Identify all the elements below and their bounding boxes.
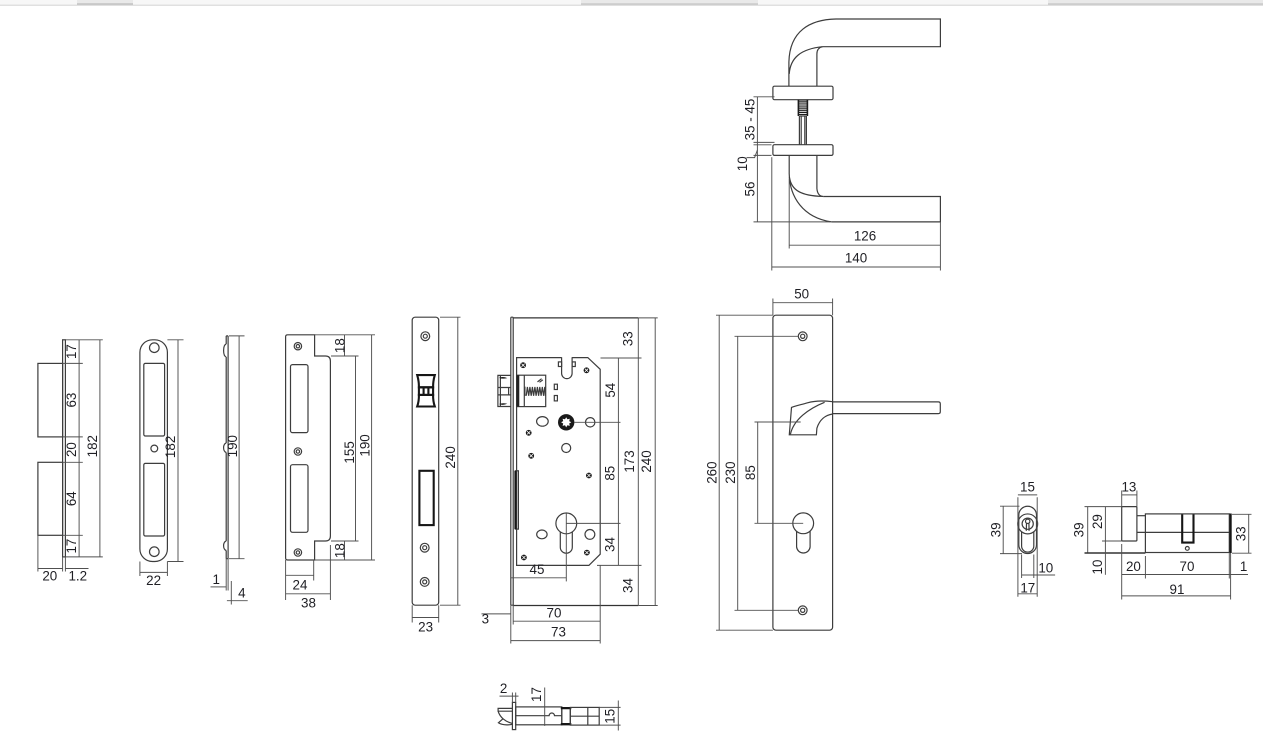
spindle midline xyxy=(570,715,599,717)
svg-text:54: 54 xyxy=(603,382,618,397)
85 dimension line xyxy=(757,422,759,523)
stepped strike plate outline xyxy=(286,335,331,560)
lock case outline with chamfered right corners (top open at slot) xyxy=(517,358,601,566)
lever boss outline xyxy=(789,401,832,435)
dim 35-45 / 56 vertical dimension line xyxy=(756,97,758,222)
svg-text:17: 17 xyxy=(64,344,79,359)
deadbolt edge-on xyxy=(515,471,518,529)
flat plate edge-on xyxy=(63,340,66,557)
bottom extension lines xyxy=(140,562,168,577)
small square hole upper xyxy=(554,384,557,389)
chain dimension line 54/85/34 xyxy=(617,358,619,565)
dim line 17 xyxy=(1018,593,1038,595)
45 extension and dim xyxy=(565,513,567,581)
bent tab bump middle xyxy=(224,443,227,453)
dim line 2 xyxy=(500,695,519,697)
deadbolt front xyxy=(419,471,433,525)
dim line 20/70/1 xyxy=(1122,574,1248,576)
oval hole bottom left xyxy=(537,530,547,539)
dim line 20 and 1.2 xyxy=(38,568,89,570)
bottom lever neck right edge with corner xyxy=(817,155,823,196)
10 dimension line extension xyxy=(1104,541,1106,575)
29 dimension line xyxy=(1104,507,1106,541)
bent tab bump top xyxy=(224,344,227,357)
svg-text:20: 20 xyxy=(42,569,57,584)
bottom lever bar xyxy=(823,197,940,222)
20/70/1 extension lines xyxy=(1122,544,1146,579)
top strip divider line xyxy=(0,5,1263,6)
bottom extension lines xyxy=(315,541,375,560)
left extension lines xyxy=(716,315,803,630)
circle bottom right xyxy=(585,530,595,540)
keyhole circle xyxy=(793,513,814,534)
cylinder body profile xyxy=(1022,532,1034,552)
latch spring coil xyxy=(525,387,546,396)
18 top dimension line xyxy=(344,335,346,356)
cylinder body xyxy=(1145,514,1229,553)
svg-text:1: 1 xyxy=(212,572,219,587)
dim line 91 xyxy=(1122,595,1231,597)
top screw hole outer xyxy=(798,332,807,341)
240 dimension line xyxy=(654,318,656,606)
2 dim extension lines xyxy=(512,693,515,703)
svg-text:18: 18 xyxy=(333,338,348,353)
bottom screw hole xyxy=(150,547,160,557)
tab 3 xyxy=(1048,0,1263,3)
17 dimension line xyxy=(544,688,546,726)
bottom extension lines xyxy=(226,559,231,605)
190 extension stubs xyxy=(229,336,245,559)
svg-text:173: 173 xyxy=(622,450,637,472)
lower bent lip box xyxy=(38,462,63,535)
bottom screw hole inner xyxy=(801,608,805,612)
tab 1 xyxy=(77,0,133,3)
middle hole xyxy=(151,445,158,452)
thumbturn knob profile (stadium) xyxy=(1019,506,1037,553)
cam slot xyxy=(1182,515,1193,543)
bottom rosette xyxy=(773,145,833,156)
top lever inner fillet curve xyxy=(789,47,822,74)
svg-text:85: 85 xyxy=(743,465,758,480)
lower screw hole outer xyxy=(420,543,429,552)
bottom lever outer curve xyxy=(789,174,831,222)
svg-text:38: 38 xyxy=(301,596,316,611)
39 dimension line xyxy=(1002,506,1004,553)
top screw hole inner xyxy=(801,334,805,338)
svg-text:190: 190 xyxy=(225,435,240,457)
neck xyxy=(1137,515,1146,517)
bottom extension lines xyxy=(412,605,439,622)
screw hole middle inner xyxy=(296,450,299,453)
svg-text:39: 39 xyxy=(1071,522,1086,537)
svg-text:91: 91 xyxy=(1170,582,1185,597)
dim line 1 xyxy=(211,586,227,588)
chain dimension line xyxy=(78,340,80,557)
small square hole lower xyxy=(554,396,557,401)
182 dimension line xyxy=(177,340,179,562)
svg-text:18: 18 xyxy=(333,543,348,558)
right end cap xyxy=(1229,514,1231,554)
svg-text:70: 70 xyxy=(1180,559,1195,574)
dim line 15 xyxy=(1018,494,1037,496)
chain dimension line 33/173/34 xyxy=(637,318,639,606)
keyway xyxy=(1026,519,1030,523)
dim line 73 xyxy=(511,640,600,642)
extension line from neck left down to 126 dim xyxy=(788,179,790,249)
lever grip end xyxy=(498,708,512,725)
182 extension stubs xyxy=(167,340,183,562)
svg-text:230: 230 xyxy=(723,461,738,483)
euro cylinder hole slot xyxy=(560,532,572,553)
latch tail detail marks xyxy=(538,379,543,383)
svg-text:13: 13 xyxy=(1121,479,1136,494)
svg-text:1: 1 xyxy=(1240,559,1247,574)
bent tab bump bottom xyxy=(224,541,227,551)
faceplate body xyxy=(412,317,439,605)
dim line 23 xyxy=(412,617,439,619)
230 dimension line xyxy=(737,336,739,610)
keyhole slot xyxy=(797,531,811,553)
svg-text:155: 155 xyxy=(342,441,357,463)
screw hole middle outer xyxy=(294,448,301,455)
10 extension lines xyxy=(1022,555,1034,579)
upper bent lip box xyxy=(38,363,63,437)
thin plate edge-on xyxy=(226,336,228,559)
cylinder face circle xyxy=(1018,514,1038,534)
dim line 126 xyxy=(789,244,940,246)
deadbolt cutout xyxy=(291,465,309,533)
13 extension lines xyxy=(1122,491,1137,507)
spindle threaded section xyxy=(798,100,807,116)
dim line 10 xyxy=(1022,574,1055,576)
small hole xyxy=(1185,547,1189,551)
svg-text:182: 182 xyxy=(163,436,178,458)
svg-text:10: 10 xyxy=(1090,560,1105,575)
svg-text:17: 17 xyxy=(1020,580,1035,595)
svg-text:73: 73 xyxy=(551,625,566,640)
svg-text:70: 70 xyxy=(547,605,562,620)
dim line 3 xyxy=(482,613,511,615)
overall 182 dimension line xyxy=(99,340,101,557)
plug circle xyxy=(1022,518,1033,529)
dim line 4 xyxy=(227,600,248,602)
slot side tabs xyxy=(558,362,561,367)
svg-text:240: 240 xyxy=(639,450,654,472)
svg-text:260: 260 xyxy=(705,461,720,483)
latch tail box xyxy=(517,375,546,406)
dim line 24 xyxy=(286,574,314,576)
svg-text:23: 23 xyxy=(418,620,433,635)
svg-text:240: 240 xyxy=(443,446,458,468)
thumbturn knob xyxy=(1122,507,1137,541)
top lever outer curve xyxy=(789,19,836,86)
rivet screws xyxy=(520,362,592,560)
18 bottom dimension line xyxy=(344,541,346,560)
deadbolt cutout xyxy=(144,463,165,536)
svg-text:35 - 45: 35 - 45 xyxy=(742,99,757,141)
screw hole top outer xyxy=(294,343,301,350)
svg-text:2: 2 xyxy=(500,681,507,696)
lever bar xyxy=(833,402,941,414)
svg-text:34: 34 xyxy=(621,578,636,593)
screw hole bottom outer xyxy=(294,549,301,556)
screw hole top inner xyxy=(296,345,299,348)
lever boss crease curve xyxy=(790,402,824,434)
latch head inner edge xyxy=(499,376,501,407)
svg-text:15: 15 xyxy=(602,709,617,724)
bottom dim extension lines xyxy=(286,545,331,600)
top lever bar xyxy=(823,19,941,47)
39 extension stubs xyxy=(1000,506,1022,553)
neck midline with bump xyxy=(516,713,562,716)
screw hole bottom inner xyxy=(296,551,299,554)
strike plate body xyxy=(140,340,168,562)
extension line from lever end down xyxy=(939,222,941,271)
top slot with rounded bottom xyxy=(562,357,573,378)
circle below follower xyxy=(562,444,571,453)
lower screw hole inner xyxy=(423,546,427,550)
svg-text:20: 20 xyxy=(64,442,79,457)
rosette plate edge-on xyxy=(512,702,515,729)
latch tail mount bar xyxy=(517,375,520,406)
50 extension lines xyxy=(773,299,833,316)
bottom lever inner fillet curve xyxy=(789,177,822,196)
spindle divider xyxy=(587,707,589,725)
bearing band xyxy=(562,707,571,725)
dim line 140 xyxy=(772,266,941,268)
right side extension lines xyxy=(513,318,638,606)
follower hub (black ring with star) xyxy=(558,414,574,430)
long extension lines 15/17 xyxy=(1018,497,1037,597)
240 extension stubs xyxy=(440,317,461,605)
latch head bevel slivers xyxy=(499,377,507,405)
bottom screw hole outer xyxy=(420,578,429,587)
svg-text:20: 20 xyxy=(1126,559,1141,574)
dim line 13 xyxy=(1122,494,1137,496)
top browser strip background xyxy=(0,0,1263,5)
svg-text:85: 85 xyxy=(603,466,618,481)
190 dimension line xyxy=(371,335,373,560)
dim line 70 xyxy=(513,620,600,622)
33 extension lines xyxy=(1232,514,1252,553)
faceplate edge-on xyxy=(511,317,513,605)
svg-text:24: 24 xyxy=(293,577,308,592)
39 extension stubs xyxy=(1085,506,1122,508)
euro cylinder hole circle xyxy=(556,513,577,534)
top extension lines xyxy=(315,335,375,356)
top screw hole outer xyxy=(421,332,430,341)
backplate body xyxy=(773,315,833,630)
top screw hole xyxy=(150,343,160,353)
spindle square rod xyxy=(799,116,806,145)
svg-text:29: 29 xyxy=(1090,514,1105,529)
svg-text:17: 17 xyxy=(64,539,79,554)
260 dimension line xyxy=(718,315,720,630)
bottom extension lines xyxy=(38,535,66,571)
33 dimension line xyxy=(1248,514,1250,553)
svg-text:190: 190 xyxy=(358,434,373,456)
svg-text:1.2: 1.2 xyxy=(68,569,87,584)
svg-text:10: 10 xyxy=(735,156,750,171)
190 dimension line xyxy=(238,336,240,559)
latch cutout xyxy=(144,363,165,436)
155 dimension line xyxy=(355,356,357,541)
svg-text:140: 140 xyxy=(845,251,867,266)
svg-text:34: 34 xyxy=(603,537,618,552)
svg-text:3: 3 xyxy=(482,611,489,626)
dim line 22 xyxy=(140,571,168,573)
top lever neck right edge xyxy=(817,47,823,86)
svg-text:4: 4 xyxy=(238,586,246,601)
extension line from rosette left down to 140 dim xyxy=(771,157,773,270)
circle right of follower xyxy=(586,418,595,427)
dim line 50 xyxy=(773,302,833,304)
svg-text:33: 33 xyxy=(621,331,636,346)
svg-text:126: 126 xyxy=(854,229,876,244)
svg-text:22: 22 xyxy=(146,573,161,588)
tab 2 xyxy=(581,0,758,3)
29 knob-bottom stub xyxy=(1102,540,1122,542)
bottom lever neck left edge xyxy=(788,155,790,173)
top rosette xyxy=(773,86,833,100)
neck from above xyxy=(516,707,562,725)
latch bolt head xyxy=(498,375,511,406)
15 extension lines xyxy=(599,707,620,725)
svg-text:56: 56 xyxy=(742,182,757,197)
latch middle band xyxy=(419,387,433,395)
dim line 38 xyxy=(286,593,331,595)
body midline merged with neck bottom xyxy=(1137,531,1229,533)
spindle section xyxy=(570,707,599,725)
extension ticks left xyxy=(754,97,831,222)
svg-text:17: 17 xyxy=(529,687,544,702)
svg-text:50: 50 xyxy=(794,287,809,302)
39 dimension line xyxy=(1087,507,1089,553)
svg-text:39: 39 xyxy=(989,522,1004,537)
240 dimension line xyxy=(457,317,459,605)
bottom screw hole outer xyxy=(798,606,807,615)
bottom extension lines xyxy=(511,565,600,643)
latch head middle band xyxy=(498,388,511,395)
svg-text:64: 64 xyxy=(64,491,79,506)
svg-text:45: 45 xyxy=(530,562,545,577)
svg-text:63: 63 xyxy=(64,393,79,408)
oval hole left of follower xyxy=(537,417,549,427)
latch head front (spool) xyxy=(417,375,435,387)
91 extension lines xyxy=(1122,579,1231,600)
svg-text:15: 15 xyxy=(1020,479,1035,494)
latch cutout xyxy=(291,365,309,433)
svg-text:182: 182 xyxy=(85,435,100,457)
bottom screw hole inner xyxy=(423,580,427,584)
latch tail spring seat line xyxy=(523,375,525,406)
extension stubs xyxy=(63,340,103,557)
15 dimension line xyxy=(617,701,619,731)
svg-text:33: 33 xyxy=(1234,526,1249,541)
top screw hole inner xyxy=(423,334,427,338)
svg-text:10: 10 xyxy=(1038,560,1053,575)
